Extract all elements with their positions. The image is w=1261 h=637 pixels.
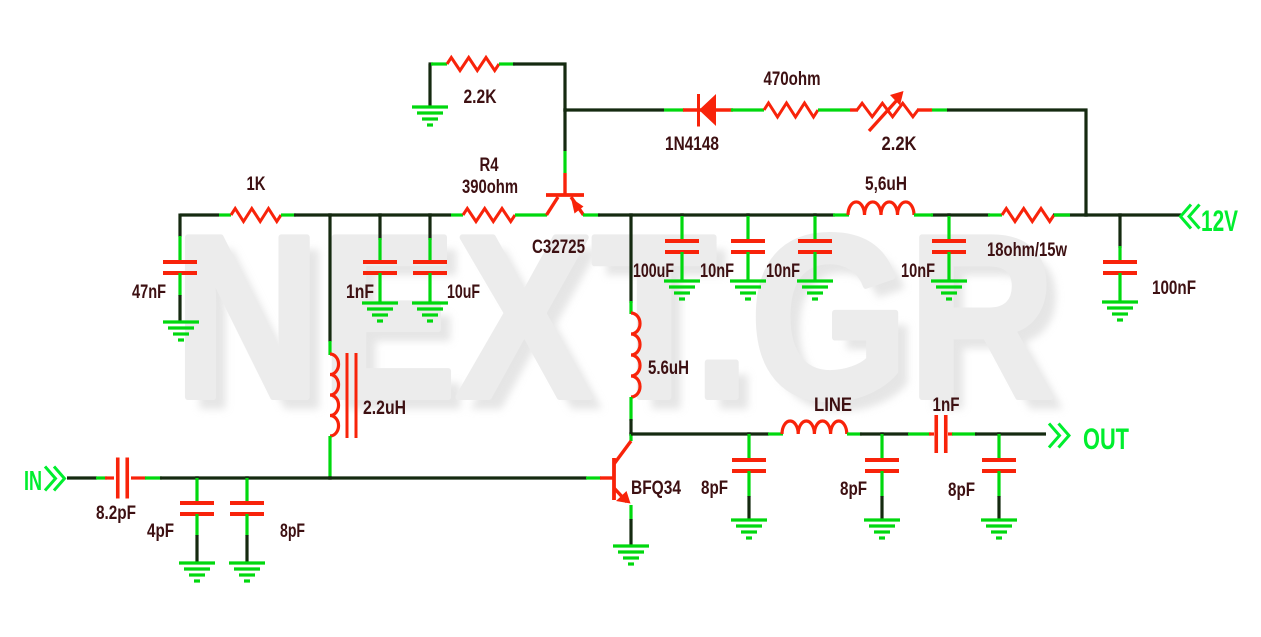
wire — [428, 215, 431, 240]
wire — [328, 215, 331, 342]
node — [328, 476, 331, 479]
capacitor C11 1nF — [929, 415, 953, 453]
capacitor C1 47nF — [163, 262, 197, 273]
label 1nF — [346, 282, 374, 303]
wire — [629, 505, 632, 520]
potentiometer R3 2.2K — [850, 91, 932, 131]
svg-text:1K: 1K — [247, 174, 266, 195]
wire — [178, 273, 181, 296]
label R4 — [480, 155, 499, 176]
svg-text:10nF: 10nF — [901, 261, 935, 282]
wire — [515, 213, 547, 216]
capacitor C12 8pF — [982, 460, 1016, 471]
wire — [96, 476, 107, 479]
wire — [833, 213, 849, 216]
svg-text:10nF: 10nF — [700, 261, 734, 282]
wire — [195, 478, 198, 503]
node B — [629, 213, 632, 216]
ground — [179, 563, 215, 581]
wire — [598, 213, 835, 216]
wire — [1054, 213, 1070, 216]
wire — [160, 476, 587, 479]
inductor L3 5.6uH — [631, 313, 640, 397]
wire — [997, 496, 1000, 519]
label BFQ34 — [631, 478, 681, 499]
label 10nF — [901, 261, 935, 282]
wire — [328, 341, 331, 355]
label 10nF — [766, 261, 800, 282]
wire — [563, 63, 566, 152]
label 470ohm — [764, 69, 821, 90]
wire — [813, 216, 816, 241]
capacitor C9 8pF — [732, 460, 766, 471]
ground — [797, 281, 833, 299]
resistor R4 390ohm — [463, 209, 515, 222]
resistor R6 18ohm/15w — [1002, 209, 1054, 222]
wire — [178, 236, 181, 262]
svg-text:LINE: LINE — [814, 395, 852, 416]
svg-text:47nF: 47nF — [132, 282, 166, 303]
svg-text:BFQ34: BFQ34 — [631, 478, 681, 499]
wire — [499, 62, 515, 65]
resistor R1 2.2K — [447, 58, 499, 71]
wire — [563, 151, 566, 173]
svg-text:12V: 12V — [1201, 205, 1238, 238]
wire — [586, 476, 601, 479]
label 10nF — [700, 261, 734, 282]
capacitor C5 10nF — [932, 241, 966, 252]
wire — [180, 213, 219, 216]
wire — [328, 436, 331, 478]
wire — [768, 432, 783, 435]
svg-text:8pF: 8pF — [701, 478, 728, 499]
svg-text:8pF: 8pF — [840, 479, 867, 500]
svg-text:8pF: 8pF — [280, 521, 305, 542]
svg-text:4pF: 4pF — [147, 521, 174, 542]
wire — [880, 434, 883, 460]
svg-text:OUT: OUT — [1083, 423, 1129, 456]
ground — [362, 303, 398, 321]
diode D1 1N4148 — [683, 94, 733, 127]
capacitor C6 100nF — [1103, 262, 1137, 273]
node — [747, 432, 750, 435]
wire — [818, 108, 850, 111]
wire — [947, 252, 950, 280]
label 8pF — [280, 521, 305, 542]
wire — [178, 214, 181, 238]
label 47nF — [132, 282, 166, 303]
connector 12V chevron — [1181, 205, 1200, 229]
node — [680, 213, 683, 216]
label 5.6uH — [648, 358, 689, 379]
watermark NEXT.GR — [174, 188, 1055, 447]
node — [997, 432, 1000, 435]
wire — [178, 295, 181, 321]
label 8pF — [948, 480, 975, 501]
label 100nF — [1152, 278, 1196, 299]
label 2.2uH — [363, 398, 406, 419]
wire — [583, 213, 600, 216]
ground — [664, 281, 700, 299]
svg-text:R4: R4 — [480, 155, 499, 176]
wire — [629, 419, 632, 436]
label 8pF — [701, 478, 728, 499]
label C32725 — [532, 237, 585, 258]
wire — [747, 496, 750, 519]
node D — [328, 213, 331, 216]
wire — [847, 432, 862, 435]
wire — [731, 108, 764, 111]
wire — [451, 213, 463, 216]
label 100uF — [633, 261, 674, 282]
label 4pF — [147, 521, 174, 542]
wire — [1118, 273, 1121, 301]
wire — [378, 238, 381, 262]
svg-text:390ohm: 390ohm — [462, 177, 518, 198]
ground — [730, 281, 766, 299]
label 1N4148 — [665, 134, 719, 155]
node C — [1084, 213, 1087, 216]
capacitor C2 100uF — [665, 241, 699, 252]
ground — [229, 563, 265, 581]
capacitor C4 10nF — [798, 241, 832, 252]
label 2.2K — [882, 134, 917, 155]
wire — [947, 108, 1088, 111]
svg-text:100nF: 100nF — [1152, 278, 1196, 299]
wire — [431, 62, 447, 65]
wire — [746, 216, 749, 241]
wire — [145, 476, 162, 479]
svg-text:5,6uH: 5,6uH — [865, 174, 907, 195]
svg-text:10nF: 10nF — [766, 261, 800, 282]
wire — [880, 496, 883, 519]
node A — [563, 108, 566, 111]
node — [195, 476, 198, 479]
wire — [629, 519, 632, 545]
svg-text:1N4148: 1N4148 — [665, 134, 719, 155]
ground — [412, 107, 448, 125]
wire — [245, 535, 248, 562]
watermark shadow — [186, 200, 1067, 459]
node — [746, 213, 749, 216]
wire — [513, 62, 567, 65]
wire — [378, 273, 381, 302]
node — [428, 213, 431, 216]
capacitor C13 8.2pF — [105, 458, 146, 499]
wire — [245, 514, 248, 536]
label LINE — [814, 395, 852, 416]
svg-text:C32725: C32725 — [532, 237, 585, 258]
wire — [908, 432, 931, 435]
node — [947, 213, 950, 216]
ground — [731, 520, 767, 538]
svg-text:2.2K: 2.2K — [882, 134, 917, 155]
svg-text:5.6uH: 5.6uH — [648, 358, 689, 379]
wire — [294, 213, 451, 216]
capacitor C15 8pF — [230, 503, 264, 514]
ground — [613, 546, 649, 564]
label 8.2pF — [96, 503, 136, 524]
wire — [629, 434, 632, 441]
wire — [378, 215, 381, 240]
node — [1118, 213, 1121, 216]
wire — [428, 238, 431, 262]
wire — [680, 216, 683, 241]
wire — [988, 213, 1002, 216]
label 1K — [247, 174, 266, 195]
label 18ohm/15w — [987, 240, 1067, 261]
transistor Q1 C32725 — [546, 173, 584, 215]
svg-text:2.2K: 2.2K — [464, 87, 497, 108]
inductor L1 5,6uH — [848, 202, 914, 215]
svg-text:NEXT.GR: NEXT.GR — [174, 188, 1055, 447]
transistor Q2 BFQ34 — [600, 441, 631, 504]
wire — [914, 213, 933, 216]
ground — [412, 303, 448, 321]
capacitor C7 1nF — [363, 262, 397, 273]
svg-text:2.2uH: 2.2uH — [363, 398, 406, 419]
svg-text:8.2pF: 8.2pF — [96, 503, 136, 524]
svg-text:18ohm/15w: 18ohm/15w — [987, 240, 1067, 261]
label 1nF — [933, 395, 960, 416]
wire — [931, 213, 990, 216]
wire — [245, 478, 248, 503]
wire — [664, 108, 684, 111]
label IN — [24, 465, 42, 496]
capacitor C10 8pF — [865, 460, 899, 471]
resistor R2 470ohm — [764, 103, 818, 117]
label 8pF — [840, 479, 867, 500]
wire — [629, 215, 632, 303]
wire — [629, 301, 632, 314]
wire — [932, 108, 948, 111]
ground — [163, 322, 199, 340]
label 390ohm — [462, 177, 518, 198]
wire — [997, 434, 1000, 460]
ground — [981, 520, 1017, 538]
connector OUT chevron — [1049, 424, 1069, 448]
wire — [947, 216, 950, 241]
wire — [1084, 109, 1087, 216]
wire — [429, 64, 434, 106]
node — [245, 476, 248, 479]
wire — [813, 252, 816, 280]
wire — [629, 397, 632, 421]
wire — [67, 476, 97, 479]
label 12V — [1201, 205, 1238, 238]
wire — [880, 471, 883, 497]
label 10uF — [447, 282, 480, 303]
node — [813, 213, 816, 216]
wire — [997, 471, 1000, 497]
node — [378, 213, 381, 216]
wire — [747, 434, 750, 460]
ground — [931, 281, 967, 299]
wire — [1053, 213, 1181, 216]
wire — [281, 213, 296, 216]
connector IN chevron — [45, 467, 65, 491]
node E — [629, 432, 632, 435]
wire — [428, 273, 431, 302]
label 2.2K — [464, 87, 497, 108]
wire — [1118, 246, 1121, 262]
wire — [747, 471, 750, 497]
ground — [1102, 302, 1138, 320]
wire — [860, 432, 909, 435]
svg-text:8pF: 8pF — [948, 480, 975, 501]
resistor R5 1K — [231, 209, 281, 222]
node — [880, 432, 883, 435]
svg-text:1nF: 1nF — [933, 395, 960, 416]
label 5,6uH — [865, 174, 907, 195]
wire — [219, 213, 231, 216]
svg-text:100uF: 100uF — [633, 261, 674, 282]
wire — [565, 108, 664, 111]
capacitor C14 4pF — [180, 503, 214, 514]
wire — [746, 252, 749, 280]
svg-text:10uF: 10uF — [447, 282, 480, 303]
svg-text:IN: IN — [24, 465, 42, 496]
wire — [195, 514, 198, 536]
label OUT — [1083, 423, 1129, 456]
wire — [195, 535, 198, 562]
capacitor C3 10nF — [731, 241, 765, 252]
ground — [864, 520, 900, 538]
capacitor C8 10uF — [413, 262, 447, 273]
svg-text:1nF: 1nF — [346, 282, 374, 303]
wire — [631, 432, 769, 435]
wire — [975, 432, 1046, 435]
wire — [680, 252, 683, 280]
inductor L2 2.2uH — [330, 353, 356, 438]
wire — [952, 432, 977, 435]
inductor L4 LINE — [782, 421, 847, 434]
wire — [1118, 215, 1121, 248]
svg-text:470ohm: 470ohm — [764, 69, 821, 90]
